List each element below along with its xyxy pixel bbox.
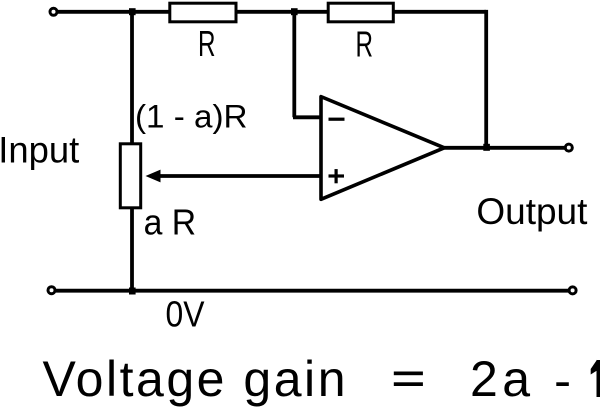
svg-text:R: R bbox=[356, 24, 374, 65]
svg-text:R: R bbox=[198, 23, 216, 64]
svg-text:(1 - a)R: (1 - a)R bbox=[135, 99, 248, 135]
svg-text:Input: Input bbox=[0, 129, 80, 170]
svg-text:Output: Output bbox=[476, 191, 588, 232]
svg-text:0V: 0V bbox=[166, 293, 205, 334]
svg-text:a R: a R bbox=[144, 202, 197, 243]
svg-text:Voltage gain: Voltage gain bbox=[43, 351, 346, 407]
